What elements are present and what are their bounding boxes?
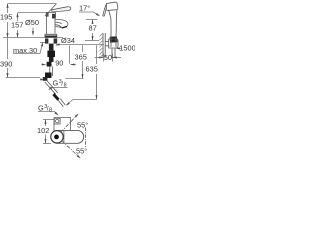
arrow max30 (41, 42, 43, 47)
base bottom dark (45, 36, 57, 38)
svg-text:8: 8 (49, 107, 52, 113)
dim 102 line (45, 120, 47, 127)
arrow 102 bottom (45, 139, 47, 143)
dim 87 line (92, 20, 94, 24)
top view: body box (54, 118, 71, 131)
arrow 102 top (45, 120, 47, 124)
arrow 87 top (92, 20, 94, 24)
arrow 55 upper (75, 114, 79, 118)
svg-text:Ø50: Ø50 (25, 18, 39, 27)
arrow 195 bottom (7, 33, 9, 37)
spray handle (109, 10, 117, 34)
dim 50 tick right (112, 54, 114, 62)
dimension line 390 (7, 38, 9, 60)
shank lower (49, 57, 54, 62)
arrow 195 top (7, 4, 9, 8)
svg-text:G: G (53, 79, 59, 88)
dim 50 right tail (113, 57, 121, 59)
lever handle bar (52, 7, 71, 12)
wall lines (103, 33, 105, 58)
dim 87 top extension (86, 19, 98, 21)
dimension line 195 (7, 4, 9, 14)
dim 102 extension top (43, 119, 54, 121)
svg-text:55°: 55° (77, 120, 88, 129)
extension line 635 bottom to hose end (67, 100, 97, 106)
wall holder cup (109, 39, 118, 48)
spout (55, 20, 68, 28)
extension line top of lever (195 level) (8, 3, 56, 5)
threaded shank (49, 44, 54, 51)
G38 no1 underline and leader (53, 87, 68, 89)
arrow 365 bottom (82, 74, 84, 78)
body column (47, 13, 56, 35)
lever front edge diagonal (45, 4, 57, 16)
arrow 50 right (113, 57, 117, 59)
spout inner line (55, 22, 62, 28)
svg-text:90: 90 (55, 58, 63, 67)
svg-text:635: 635 (86, 64, 98, 73)
capsule inner circle (54, 135, 59, 140)
svg-text:390: 390 (0, 59, 12, 68)
svg-text:8: 8 (64, 83, 67, 89)
flex hose lower segment (58, 99, 65, 107)
spray head (106, 2, 118, 10)
base escutcheon (45, 34, 57, 37)
flex hose upper segment (45, 81, 58, 95)
vertical reference dash line (85, 128, 87, 148)
leader arrow O50 (32, 28, 34, 35)
body cap (46, 13, 56, 19)
swivel line lower 55 (62, 141, 81, 158)
dim 87 bottom extension (85, 40, 99, 42)
aerator dark (62, 27, 67, 29)
svg-text:G: G (38, 103, 44, 112)
dim 90 right arrow tail (71, 64, 77, 66)
arrow O34 leader (56, 43, 61, 45)
arrow G38 no1 leader (48, 87, 52, 91)
svg-text:87: 87 (89, 24, 97, 33)
arrow 55 lower (77, 155, 81, 159)
arrow 50 left (99, 57, 103, 59)
deck underside segment (max.30) (40, 42, 47, 44)
extension line spout top (157 level) (18, 12, 48, 14)
arrow 17deg leader (96, 13, 100, 16)
arrowheads (7, 4, 120, 159)
dim 102 extension bottom (43, 143, 51, 145)
hand spray view (103, 2, 118, 57)
connection tube (50, 66, 53, 76)
holder clamp dark (110, 36, 118, 42)
arrow 157 bottom (16, 33, 18, 37)
holder bracket to wall (105, 42, 108, 46)
arrow 1500 leader (116, 47, 120, 49)
1500 leader tail (120, 47, 122, 49)
top view cartridge circle (56, 119, 59, 122)
arrow 87 bottom (92, 36, 94, 40)
shank end fitting (47, 62, 52, 67)
faucet side view (45, 4, 71, 37)
wall hatching (99, 33, 103, 58)
mounting nut (47, 51, 55, 57)
dim 365 line (82, 45, 84, 52)
svg-text:365: 365 (75, 52, 87, 61)
deck clamp dark left (45, 38, 48, 43)
arrow 157 top (16, 13, 18, 17)
spout capsule top view (51, 130, 83, 143)
swivel line upper 55 (61, 114, 79, 132)
arrow hose-end leader (66, 102, 70, 106)
dim 50 tick left (103, 54, 105, 62)
svg-text:max.30: max.30 (13, 46, 37, 55)
spray trigger (103, 8, 106, 16)
top view cartridge square (54, 118, 60, 124)
deck clamp dark right (54, 38, 58, 43)
hose fitting nut (52, 93, 59, 101)
arrow 390 right at connector (40, 78, 45, 80)
deck surface line (3, 37, 63, 39)
extension line spout tip (90 right) (69, 46, 71, 64)
arrow 635 bottom (96, 95, 98, 99)
svg-text:50: 50 (104, 53, 112, 62)
arrow 90 left (42, 64, 46, 66)
svg-text:Ø34: Ø34 (61, 36, 75, 45)
capsule left cap bold ring (51, 131, 63, 143)
lever cap dark marks (46, 13, 56, 19)
G38 no2 underline and leader (38, 112, 58, 115)
O34 underline / extension line to right (56, 44, 104, 46)
svg-text:102: 102 (37, 126, 49, 135)
svg-text:55°: 55° (76, 146, 87, 155)
max.30 underline and leader (13, 44, 42, 54)
arrow 390 bottom (7, 73, 9, 77)
capsule joint line (63, 131, 65, 143)
spray nozzle face (105, 4, 107, 9)
dim 635 line (96, 45, 98, 64)
svg-text:1500: 1500 (119, 44, 135, 53)
arrow O50 down (32, 31, 34, 35)
svg-text:17°: 17° (79, 4, 90, 13)
arrow G38 no2 leader (55, 112, 59, 116)
dim 50 left tail (95, 57, 103, 59)
17deg underline and leader (79, 12, 99, 16)
extension line hose connection level (390 bottom) (6, 77, 40, 79)
extension line 365 bottom (66, 78, 84, 80)
hose connector block (45, 73, 52, 79)
arrow 90 right (70, 64, 74, 66)
spray hose below holder (112, 48, 115, 57)
dimension line 157 (17, 13, 19, 22)
handle through holder (111, 34, 116, 48)
dim 90 left arrow tail (42, 64, 44, 66)
svg-text:157: 157 (11, 21, 23, 30)
